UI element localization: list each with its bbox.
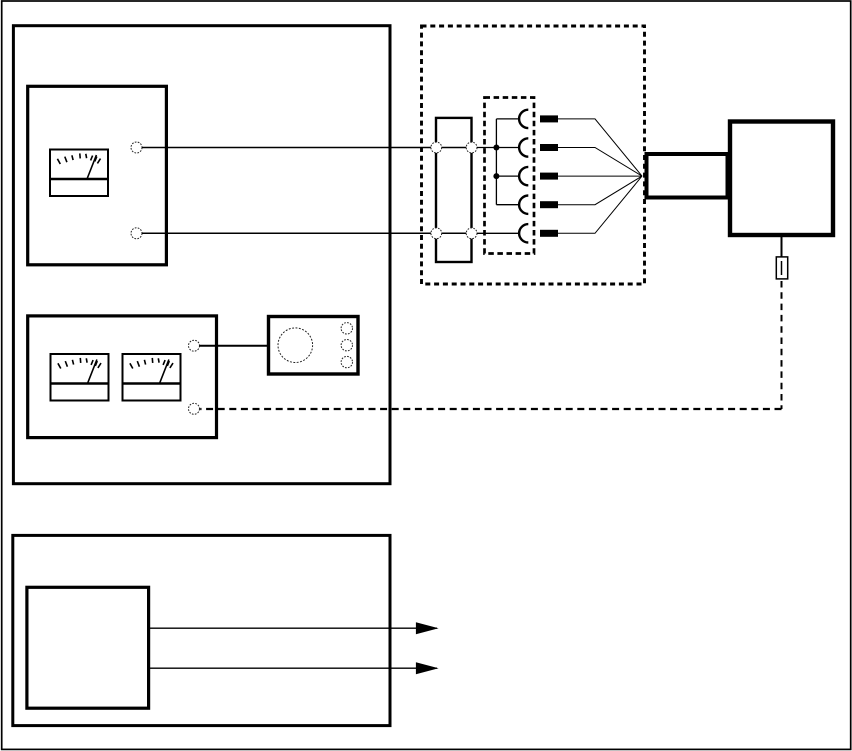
indicator unit box — [269, 317, 359, 375]
connector contact circle right-bottom — [466, 228, 477, 239]
pin terminal 2 — [540, 144, 558, 151]
terminal T2 — [131, 228, 142, 239]
meter enclosure box 1 — [28, 86, 167, 264]
inner dashed socket-group box — [485, 98, 535, 254]
meter M1 — [50, 150, 108, 197]
junction node dot 2 — [493, 173, 499, 179]
wire T2 to connector — [142, 232, 432, 234]
terminal T3 — [189, 340, 200, 351]
junction node dot 1 — [493, 145, 499, 151]
connector contact circle left-bottom — [431, 228, 442, 239]
terminal T4 — [189, 403, 200, 414]
terminal T1 — [131, 142, 142, 153]
wire connector to socket 5 — [477, 232, 519, 234]
dashed drop wire from fuse — [781, 281, 783, 409]
wire across connector bottom — [441, 232, 467, 234]
socket contact 3 — [519, 167, 528, 185]
wire branch to socket 2 — [496, 147, 519, 149]
wire branch to socket 3 — [496, 175, 519, 177]
lower inner unit box — [27, 587, 149, 708]
socket contact 1 — [519, 110, 528, 128]
lower equipment box — [13, 535, 390, 725]
socket contact 5 — [519, 224, 528, 242]
instrument unit box — [730, 122, 833, 236]
meter M3 — [123, 354, 181, 401]
pin terminal 5 — [540, 230, 558, 237]
fuse element line — [781, 261, 783, 275]
output arrowhead 2 — [416, 662, 439, 674]
output wire 2 — [149, 667, 437, 669]
fuse body — [776, 257, 787, 279]
lead wire pin5 to harness point — [558, 176, 642, 233]
indicator lamp 2 — [341, 340, 352, 351]
connector block — [436, 118, 472, 262]
lead wire pin3 to harness point — [558, 175, 642, 177]
wire T3 to indicator unit — [200, 345, 268, 347]
indicator lamp 3 — [341, 356, 352, 367]
socket contact 4 — [519, 196, 528, 214]
lead wire pin1 to harness point — [558, 119, 642, 176]
output arrowhead 1 — [416, 622, 439, 634]
wire branch to socket 1 — [496, 118, 519, 120]
lead wire pin4 to harness point — [558, 176, 642, 205]
indicator lamp 1 — [341, 323, 352, 334]
dashed return wire to lower panel — [200, 408, 781, 410]
pin terminal 4 — [540, 201, 558, 208]
socket contact 2 — [519, 138, 528, 156]
meter M2 — [51, 354, 109, 401]
dashed junction enclosure (outer dashed box) — [422, 26, 645, 284]
meter enclosure box 2 — [28, 316, 217, 438]
connector contact circle left-top — [431, 142, 442, 153]
wire across connector top — [441, 147, 467, 149]
lead wire pin2 to harness point — [558, 148, 642, 177]
wire T1 to connector — [142, 147, 432, 149]
connector contact circle right-top — [466, 142, 477, 153]
pin terminal 1 — [540, 115, 558, 122]
output wire 1 — [149, 627, 437, 629]
indicator dial circle — [278, 328, 313, 363]
wire unit to fuse — [781, 235, 783, 258]
upper control-panel box — [13, 26, 390, 484]
pin terminal 3 — [540, 173, 558, 180]
wire connector to junction node — [477, 147, 496, 149]
junction bus vertical wire — [495, 119, 497, 205]
plug housing rectangle — [647, 154, 728, 198]
wire branch to socket 4 — [496, 204, 519, 206]
